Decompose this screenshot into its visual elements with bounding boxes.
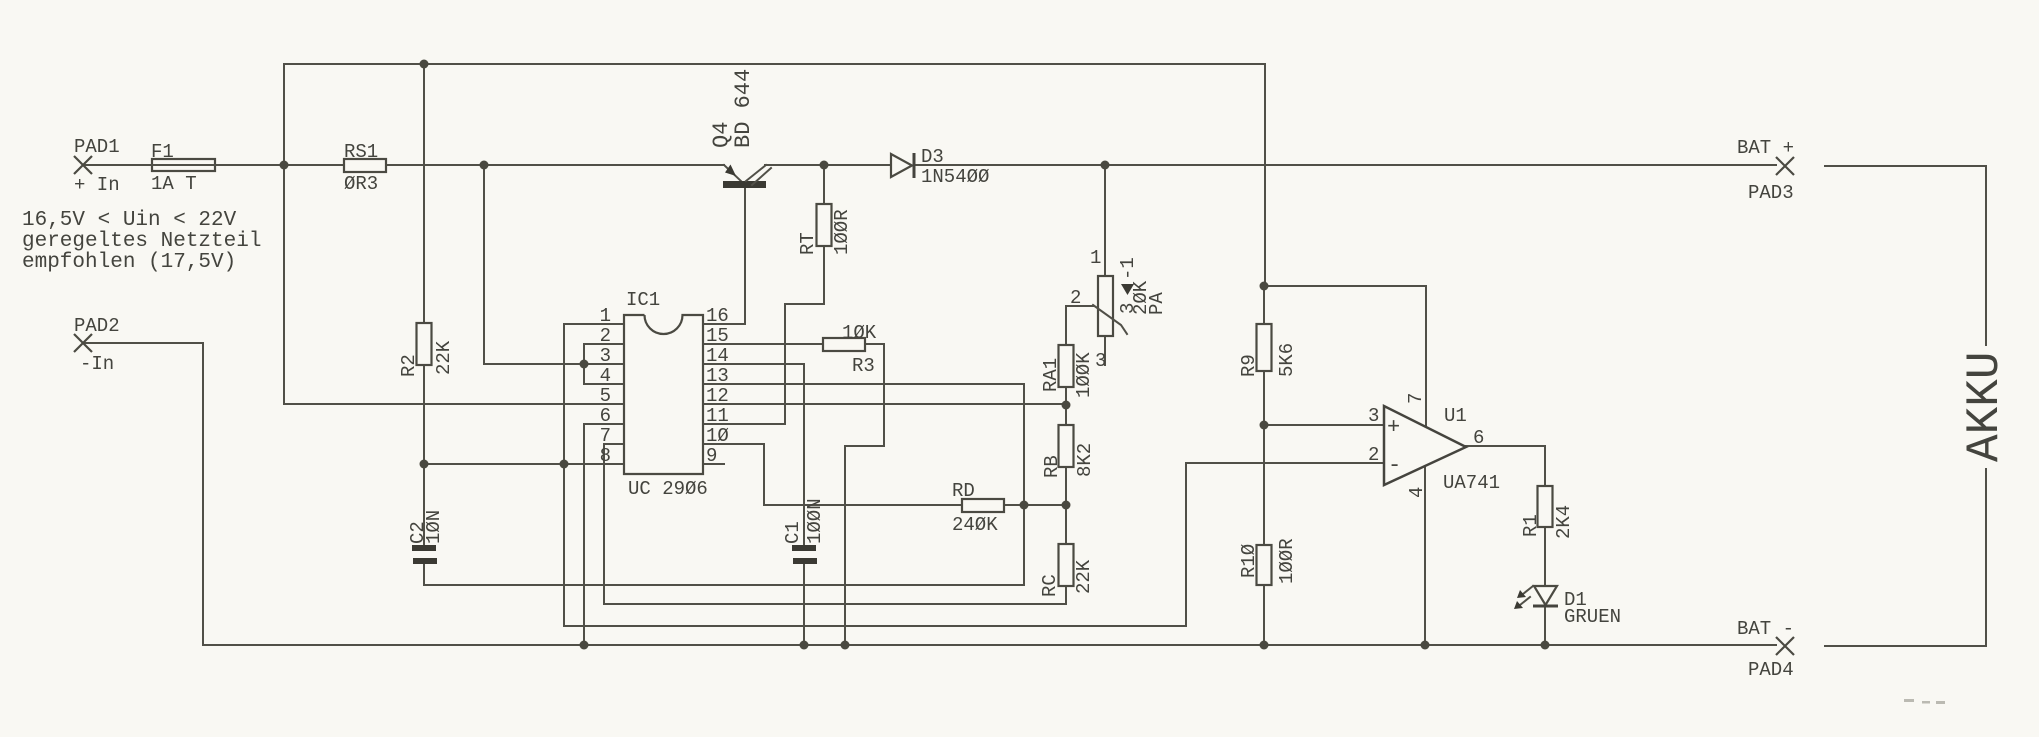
node BAT- labels bbox=[1737, 618, 1794, 681]
capacitor C1 bbox=[792, 545, 817, 564]
resistor RT labels bbox=[797, 209, 853, 255]
svg-text:1Ø: 1Ø bbox=[706, 425, 729, 447]
wire pin11 to RT bottom bbox=[703, 246, 824, 424]
LED D1 labels bbox=[1564, 589, 1621, 628]
wire D1 to bus bbox=[1544, 606, 1546, 645]
scan smudge bbox=[1904, 699, 1945, 704]
wire C1 bottom to bus bbox=[803, 564, 805, 645]
svg-text:IC1: IC1 bbox=[626, 289, 660, 311]
resistor RS1 labels bbox=[344, 141, 378, 195]
svg-text:+ In: + In bbox=[74, 174, 120, 196]
transistor Q4 emitter arrow bbox=[725, 165, 736, 177]
resistor RC bbox=[1059, 544, 1074, 586]
svg-text:8: 8 bbox=[600, 445, 611, 467]
svg-text:2: 2 bbox=[600, 325, 611, 347]
svg-text:6: 6 bbox=[600, 405, 611, 427]
node top R2 bbox=[420, 60, 429, 69]
svg-text:R9: R9 bbox=[1238, 354, 1260, 377]
svg-text:1ØØN: 1ØØN bbox=[804, 498, 826, 544]
wire opamp output to R1 bbox=[1466, 446, 1545, 486]
svg-text:13: 13 bbox=[706, 365, 729, 387]
resistor R3 bbox=[823, 338, 865, 351]
svg-text:RT: RT bbox=[797, 232, 819, 255]
svg-text:R1Ø: R1Ø bbox=[1238, 544, 1260, 578]
potentiometer PA wiper bbox=[1093, 305, 1127, 334]
svg-text:F1: F1 bbox=[151, 141, 174, 163]
svg-text:9: 9 bbox=[706, 445, 717, 467]
node RB RC bbox=[1062, 501, 1071, 510]
node C1 bus bbox=[800, 641, 809, 650]
svg-text:-In: -In bbox=[80, 353, 114, 375]
resistor R2 bbox=[417, 323, 432, 365]
svg-text:RD: RD bbox=[952, 480, 975, 502]
svg-text:geregeltes Netzteil: geregeltes Netzteil bbox=[22, 230, 261, 253]
resistor RD bbox=[962, 499, 1004, 512]
wire BAT+ to AKKU top bbox=[1825, 166, 1986, 345]
svg-text:5: 5 bbox=[600, 385, 611, 407]
resistor RA1 bbox=[1059, 345, 1074, 387]
resistor R2 labels bbox=[398, 340, 455, 377]
transistor Q4 labels bbox=[709, 69, 756, 148]
pad PAD4 bbox=[1776, 637, 1794, 655]
wire pin13 down bbox=[703, 384, 1024, 505]
wire pin9 stub bbox=[703, 463, 724, 465]
svg-text:C1: C1 bbox=[782, 521, 804, 544]
wire opamp plus input bbox=[1264, 424, 1384, 426]
wire pot wiper to RA1 top bbox=[1066, 306, 1093, 345]
wire pin1-8 net to opamp minus bbox=[564, 463, 1384, 626]
node D1 bus bbox=[1541, 641, 1550, 650]
svg-text:1A T: 1A T bbox=[151, 173, 197, 195]
IC1 name labels bbox=[626, 289, 708, 500]
resistor R9 labels bbox=[1238, 343, 1298, 377]
svg-text:UA741: UA741 bbox=[1443, 472, 1500, 494]
wire pin15 to R3 bbox=[703, 343, 823, 345]
svg-text:1ØØK: 1ØØK bbox=[1073, 352, 1095, 398]
IC1 left pin numbers bbox=[600, 305, 611, 467]
svg-text:7: 7 bbox=[600, 425, 611, 447]
resistor RC labels bbox=[1039, 559, 1095, 597]
resistor RA1 labels bbox=[1040, 352, 1095, 398]
wire RA1 to RB bbox=[1065, 387, 1067, 425]
svg-text:15: 15 bbox=[706, 325, 729, 347]
pad PAD3 bbox=[1776, 157, 1794, 175]
svg-text:1N54ØØ: 1N54ØØ bbox=[921, 166, 989, 188]
wire pin6 to bus bbox=[584, 424, 624, 645]
svg-text:U1: U1 bbox=[1444, 405, 1467, 427]
IC1 right pin numbers bbox=[706, 305, 729, 467]
node pin1 pin8 bbox=[560, 460, 569, 469]
svg-text:PAD2: PAD2 bbox=[74, 315, 120, 337]
wire top bus bbox=[284, 64, 1426, 426]
svg-text:PAD4: PAD4 bbox=[1748, 659, 1794, 681]
node R9 top bbox=[1260, 282, 1269, 291]
svg-text:empfohlen (17,5V): empfohlen (17,5V) bbox=[22, 251, 236, 274]
svg-text:GRUEN: GRUEN bbox=[1564, 606, 1621, 628]
resistor R10 bbox=[1257, 545, 1272, 585]
node RA1 RB pin12 bbox=[1062, 401, 1071, 410]
svg-text:2K4: 2K4 bbox=[1553, 505, 1575, 539]
wire pin8 row bbox=[424, 463, 624, 465]
wire PAD2 to bottom bus bbox=[83, 343, 1776, 645]
wire opamp pin4 to bus bbox=[1424, 466, 1426, 645]
svg-text:-: - bbox=[1388, 453, 1401, 478]
resistor RB labels bbox=[1041, 443, 1096, 478]
svg-text:6: 6 bbox=[1473, 427, 1484, 449]
node R9 R10 plus bbox=[1260, 421, 1269, 430]
svg-text:22K: 22K bbox=[433, 340, 455, 375]
svg-text:1ØK: 1ØK bbox=[842, 322, 877, 344]
resistor RD labels bbox=[952, 480, 998, 536]
fuse F1 labels bbox=[151, 141, 197, 195]
resistor R9 bbox=[1257, 324, 1272, 371]
capacitor C1 labels bbox=[782, 498, 826, 544]
transistor Q4 base bar bbox=[723, 181, 766, 188]
wire R9 column bbox=[1263, 286, 1265, 645]
svg-text:1ØN: 1ØN bbox=[423, 510, 445, 544]
pad PAD2 bbox=[74, 334, 92, 352]
wire AKKU bottom to BAT- bbox=[1825, 469, 1986, 646]
svg-text:4: 4 bbox=[1406, 487, 1428, 498]
svg-text:D3: D3 bbox=[921, 146, 944, 168]
wire Q4 collector to D3 bbox=[765, 164, 891, 166]
node R3net bus bbox=[841, 641, 850, 650]
wire RT top bbox=[823, 165, 825, 204]
pad PAD1 bbox=[74, 156, 92, 174]
svg-text:14: 14 bbox=[706, 345, 729, 367]
svg-text:1: 1 bbox=[600, 305, 611, 327]
svg-text:4: 4 bbox=[600, 365, 611, 387]
wire pot pin3 stub bbox=[1104, 336, 1106, 365]
svg-text:RA1: RA1 bbox=[1040, 358, 1062, 392]
svg-text:RB: RB bbox=[1041, 455, 1063, 478]
note input voltage bbox=[22, 209, 261, 274]
wire pin2 pin4 link bbox=[584, 344, 624, 384]
svg-text:PA: PA bbox=[1146, 292, 1168, 315]
svg-text:7: 7 bbox=[1405, 393, 1427, 404]
wire pin7 to RC bottom bbox=[604, 444, 1066, 604]
wire F1 to RS1 bbox=[215, 164, 344, 166]
potentiometer PA rotated labels bbox=[1117, 257, 1168, 315]
svg-text:+: + bbox=[1387, 415, 1400, 440]
svg-text:3: 3 bbox=[1095, 350, 1106, 372]
resistor R3 labels bbox=[842, 322, 877, 377]
node pot top bbox=[1101, 161, 1110, 170]
LED D1 bbox=[1533, 586, 1558, 606]
transistor Q4 collector bbox=[746, 165, 771, 185]
wire R3 right to bus bbox=[845, 344, 884, 645]
resistor R1 bbox=[1538, 486, 1553, 527]
wire pin3 to main bbox=[484, 165, 624, 364]
wire D3 to BAT+ bbox=[916, 164, 1776, 166]
capacitor C2 labels bbox=[407, 510, 445, 544]
wire pin10 to RD left bbox=[703, 444, 962, 505]
svg-text:5K6: 5K6 bbox=[1276, 343, 1298, 377]
wire pin1 bbox=[564, 324, 624, 464]
svg-text:BAT -: BAT - bbox=[1737, 618, 1794, 640]
transistor Q2 emitter bbox=[724, 165, 742, 182]
wire C2 bottom to RD node column bbox=[424, 505, 1024, 585]
svg-text:RC: RC bbox=[1039, 574, 1061, 597]
op-amp U1 labels bbox=[1368, 393, 1500, 498]
diode D3 bbox=[891, 153, 914, 178]
svg-text:1ØØR: 1ØØR bbox=[1276, 538, 1298, 584]
potentiometer PA pin labels bbox=[1070, 247, 1106, 372]
node main pin3 bbox=[480, 161, 489, 170]
wire R2 top column bbox=[423, 64, 425, 323]
LED D1 arrows bbox=[1514, 586, 1533, 609]
wire RB to RC bbox=[1065, 467, 1067, 544]
svg-text:RS1: RS1 bbox=[344, 141, 378, 163]
wire PAD1 to F1 bbox=[83, 164, 152, 166]
potentiometer PA body bbox=[1098, 276, 1113, 336]
resistor RT bbox=[817, 204, 832, 246]
capacitor C2 bbox=[412, 545, 437, 564]
svg-text:1ØØR: 1ØØR bbox=[831, 209, 853, 255]
wire pin16 to Q4 base bbox=[703, 188, 745, 324]
svg-text:R1: R1 bbox=[1520, 514, 1542, 537]
svg-text:8K2: 8K2 bbox=[1074, 443, 1096, 477]
wire pin14 to C1 bbox=[703, 364, 804, 546]
svg-text:BD 644: BD 644 bbox=[731, 69, 756, 148]
svg-text:16,5V < Uin < 22V: 16,5V < Uin < 22V bbox=[22, 209, 237, 232]
node pin6 bus bbox=[580, 641, 589, 650]
wire left vertical to pin5 bbox=[284, 64, 624, 404]
resistor R1 labels bbox=[1520, 505, 1575, 539]
svg-text:2: 2 bbox=[1070, 287, 1081, 309]
node C2 top bbox=[420, 460, 429, 469]
IC1 body bbox=[624, 315, 703, 474]
svg-text:1: 1 bbox=[1090, 247, 1101, 269]
svg-text:R2: R2 bbox=[398, 354, 420, 377]
diode D3 labels bbox=[921, 146, 989, 188]
wire RS1 to Q4 emitter bbox=[386, 164, 724, 166]
wire R1 to D1 bbox=[1544, 527, 1546, 586]
svg-text:22K: 22K bbox=[1073, 559, 1095, 594]
svg-text:3: 3 bbox=[600, 345, 611, 367]
svg-text:16: 16 bbox=[706, 305, 729, 327]
node RT top bbox=[820, 161, 829, 170]
wire R2 bottom to C2 bbox=[423, 365, 425, 546]
wire pot top column bbox=[1104, 165, 1106, 276]
node pin3 pin2-4 bbox=[580, 360, 589, 369]
op-amp U1 triangle bbox=[1384, 406, 1466, 485]
svg-text:R3: R3 bbox=[852, 355, 875, 377]
svg-text:11: 11 bbox=[706, 405, 729, 427]
svg-text:PAD3: PAD3 bbox=[1748, 182, 1794, 204]
svg-text:24ØK: 24ØK bbox=[952, 514, 998, 536]
svg-text:ØR3: ØR3 bbox=[344, 173, 378, 195]
svg-text:UC 29Ø6: UC 29Ø6 bbox=[628, 478, 708, 500]
resistor RB bbox=[1059, 425, 1074, 467]
node BAT+ labels bbox=[1737, 137, 1794, 204]
svg-text:-1: -1 bbox=[1117, 257, 1139, 280]
resistor R10 labels bbox=[1238, 538, 1298, 584]
svg-text:2: 2 bbox=[1368, 444, 1379, 466]
node F1-RS1 bbox=[280, 161, 289, 170]
wire RD right to RB RC node bbox=[1004, 504, 1066, 506]
svg-text:12: 12 bbox=[706, 385, 729, 407]
svg-text:BAT +: BAT + bbox=[1737, 137, 1794, 159]
wire pin12 to RA1 bottom bbox=[703, 403, 1066, 405]
node pin4 bus bbox=[1421, 641, 1430, 650]
svg-text:AKKU: AKKU bbox=[1959, 352, 2011, 462]
svg-text:3: 3 bbox=[1368, 405, 1379, 427]
fuse F1 bbox=[152, 159, 215, 171]
resistor RS1 bbox=[344, 159, 386, 172]
node R10 bus bbox=[1260, 641, 1269, 650]
node pin13 RD bbox=[1020, 501, 1029, 510]
svg-text:PAD1: PAD1 bbox=[74, 136, 120, 158]
